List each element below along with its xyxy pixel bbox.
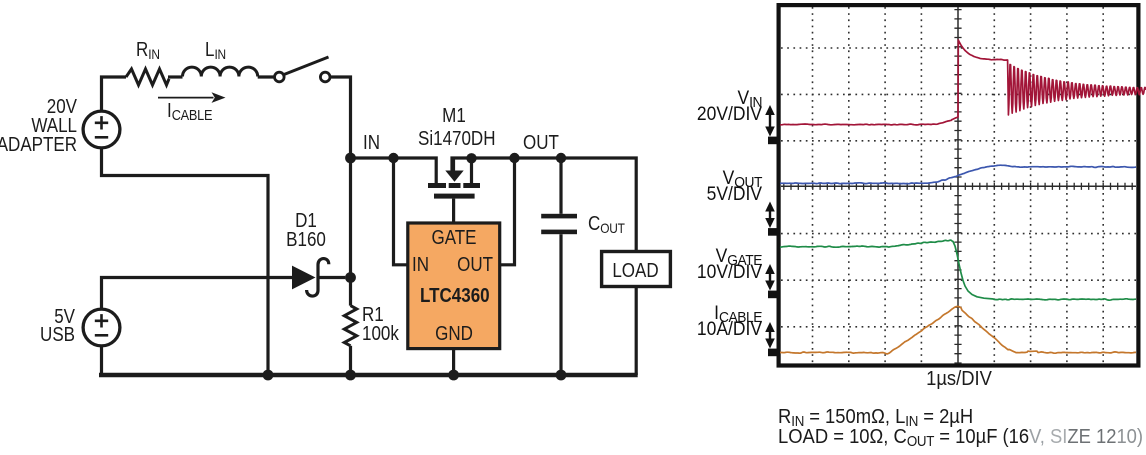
MOSFET M1 gate bar [434,194,475,199]
junction D1 cathode R1 top [345,272,356,283]
junction COUT bottom [556,370,567,381]
switch [275,57,331,82]
label COUT [588,215,625,235]
wire load bottom [635,287,638,376]
capacitor COUT [559,158,562,214]
scope vertical axis [957,7,959,363]
ground rail [99,373,638,377]
wire 5V source bottom [100,346,103,376]
scope label VGATE [670,250,762,280]
channel ground marker VIN [768,137,779,145]
wire IN node to R1 [349,158,352,306]
M1 drain stub [470,158,473,183]
label LOAD [606,262,665,281]
junction OUT pin riser [509,153,519,163]
voltage source 5V USB [83,309,120,346]
trace VOUT [780,165,1136,184]
channel arrow VIN [765,105,775,137]
channel arrow VGATE [765,264,775,291]
scope axis ticks horizontal [784,183,1132,190]
channel ground marker VGATE [768,291,779,299]
node IN junction [345,153,356,164]
label ICABLE [167,102,212,122]
resistor RIN [126,69,169,85]
wire switch to IN node [330,77,351,155]
trace ICABLE [780,307,1136,355]
channel arrow VOUT [765,202,775,229]
label LIN [205,41,226,61]
part label LTC4360 [420,287,488,306]
inductor LIN [183,67,258,76]
channel ground marker VOUT [768,228,779,236]
caption line 1 [778,407,973,430]
junction COUT top [556,153,566,163]
trace VGATE [780,240,1136,300]
scope horizontal axis [781,185,1136,187]
wire 5V source to diode anode [102,278,293,310]
pin label GND [420,325,488,344]
wire GND pin [452,349,455,375]
scope label VOUT [670,172,762,202]
wire top rail right segment to LOAD [452,158,636,252]
label Si1470DH [418,130,486,149]
label 5V USB [0,308,75,345]
voltage source 20V wall adapter [83,111,120,148]
wire resistor to inductor [168,75,183,78]
diode D1 B160 [292,266,316,290]
pin label OUT [442,256,493,275]
label OUT node [523,134,559,153]
current arrow ICABLE [158,97,214,99]
wire IN pin riser [394,158,408,265]
junction IN pin riser [388,153,398,163]
junction GND on ground rail [448,370,459,381]
label 20V WALL ADAPTER [0,98,77,156]
MOSFET M1 body bar [449,183,461,188]
label M1 [420,107,488,126]
IC LTC4360 body [408,223,500,349]
scope label ICABLE [670,307,762,337]
wire top rail left segment and M1 source stub [351,158,437,183]
label RIN [136,41,160,61]
label D1 B160 [272,212,340,252]
scope dotted grid verticals [813,7,1104,363]
scope dotted grid horizontals [781,48,1136,327]
wire OUT pin riser [500,158,515,265]
MOSFET M1 drain bar [463,183,480,188]
pin label GATE [420,229,488,248]
load box [602,252,671,287]
caption line 2 [778,427,1143,450]
label IN node [363,134,380,153]
channel ground marker ICABLE [768,349,779,357]
pin label IN [412,256,429,275]
scope label time base [913,370,1005,389]
oscilloscope frame [779,5,1139,365]
wire inductor to switch [258,75,275,78]
junction rail R1 [345,370,356,381]
junction at M1 drain [466,153,476,163]
junction rail adapter return [263,370,274,381]
MOSFET M1 body diode arrow [452,158,455,171]
scope label VIN [670,92,762,122]
scope axis ticks vertical [954,10,961,363]
wire M1 gate to LTC4360 [452,199,455,223]
wire adapter positive to resistor [102,77,127,113]
resistor R1 [344,306,356,346]
trace VIN [780,40,1146,125]
channel arrow ICABLE [765,322,775,349]
label R1 [362,306,399,344]
wire adapter return [102,148,269,376]
MOSFET M1 source bar [428,183,446,188]
